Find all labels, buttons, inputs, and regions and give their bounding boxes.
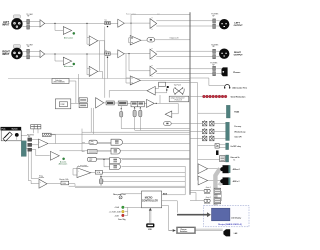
wire micro to choose [162, 206, 173, 231]
connector J5 phones jack [222, 67, 228, 76]
wire ch2 sidechain branch [126, 54, 130, 83]
wire comp chain verticals [71, 27, 105, 135]
wire rj45 vertical2 [197, 113, 199, 180]
svg-text:Freq.: Freq. [39, 175, 43, 177]
wire ch2 sidechain long line [140, 79, 190, 81]
box feedback ref [159, 82, 166, 86]
LCD display blue [212, 208, 230, 221]
svg-text:+: + [40, 182, 41, 184]
filter FL12 [28, 143, 32, 146]
svg-text:CONTROLLER: CONTROLLER [142, 200, 158, 202]
wire relay rows to bus [190, 124, 226, 139]
arrow usb to micro [150, 210, 151, 223]
wire ch2 outputs to XLR [156, 51, 220, 56]
wire long y181.6 [103, 180, 185, 182]
filter FL6 [27, 55, 30, 59]
junction block black [167, 86, 169, 88]
connector J6 AES out black [220, 165, 230, 173]
power module external 5v box [220, 156, 225, 162]
svg-text:+: + [78, 171, 79, 173]
SECTIONS ADDED BELOW [8, 12, 226, 230]
switch S1 on-off box [215, 144, 219, 149]
wire pot below vca [100, 173, 102, 187]
svg-text:hold: hold [89, 160, 92, 162]
node ch1 131 [130, 23, 131, 24]
connector J8 LAN [223, 229, 230, 236]
filter FL13 [28, 148, 32, 151]
svg-text:+: + [90, 38, 91, 40]
op-amp A9 ch2 sidechain pick [89, 66, 98, 76]
node ch1 branch [54, 23, 55, 24]
block attack-release timing [131, 101, 144, 106]
wire ch1 branch down to pm triangle [129, 23, 131, 43]
sidechain link box [52, 79, 69, 84]
filter FL10 [213, 72, 216, 76]
svg-text:Gain Reduction: Gain Reduction [231, 96, 247, 99]
bus main vertical [189, 12, 191, 195]
block RMS [106, 101, 114, 105]
knob black [15, 133, 19, 137]
node ch2 129 [128, 53, 129, 54]
svg-text:Attenuation: Attenuation [59, 162, 68, 165]
node feedback [166, 89, 167, 90]
svg-text:Sidechain: Sidechain [55, 80, 62, 82]
connector GPI teal block [226, 122, 230, 140]
svg-text:On/OFF relay: On/OFF relay [230, 146, 241, 148]
wire long y172.6 [103, 172, 186, 174]
node vca out [100, 176, 102, 178]
node ch1 x87 [86, 23, 87, 24]
comparator row B box [88, 150, 97, 154]
comparator row A dshape [111, 139, 122, 145]
block choose switches [177, 227, 196, 234]
op-amp A1 ch1 input [40, 20, 45, 27]
svg-text:In: In [234, 159, 236, 161]
op-amp A7 ch2 input [40, 50, 45, 57]
svg-text:Attenuator Test: Attenuator Test [232, 87, 247, 90]
block VCA [95, 170, 102, 174]
node ch2 x87 [86, 53, 87, 54]
svg-text:AESout 1: AESout 1 [233, 168, 241, 171]
pot P3 timing2 [139, 107, 141, 110]
svg-text:Phones: Phones [233, 72, 241, 74]
svg-text:Attenuation: Attenuation [64, 36, 73, 39]
connector RJ45 teal block [226, 105, 230, 118]
wire comp up to feedback [159, 95, 161, 103]
op-amp A15 aes driver 2 [198, 176, 208, 185]
wire long y166.3 [122, 165, 186, 167]
wire gain boxes link [214, 191, 222, 201]
arrow to lcd [177, 212, 211, 217]
resistor R1 hatched [42, 133, 51, 136]
relay K5 gain gpi contacts [203, 135, 215, 141]
wire sidechain box stub [69, 80, 76, 82]
filter FL7 [213, 49, 216, 53]
op-amp A14 aes driver 1 [198, 164, 208, 174]
node ch2 branch [54, 53, 55, 54]
LED D14 green acoustic [63, 158, 65, 160]
wire gain transformers in [185, 186, 203, 200]
op-amp A22 freq doubler [39, 179, 47, 188]
wire left panel to opamp [21, 136, 50, 156]
pot P4 vca [99, 179, 102, 184]
node ch1 relay dot [107, 26, 108, 27]
svg-text:External 5v: External 5v [231, 156, 240, 159]
svg-text:OUTPUT: OUTPUT [234, 25, 244, 27]
svg-text:Recipe [9AB/9-3.MCK.4]: Recipe [9AB/9-3.MCK.4] [218, 223, 242, 226]
display enclosure dashed box [204, 205, 249, 226]
comparator row C box [88, 157, 97, 161]
filter FL9 [213, 66, 216, 70]
op-amp A17 cv amp [147, 99, 155, 107]
wire choose to lan double [195, 229, 222, 231]
wire ch1 tri#1 out [98, 41, 105, 54]
svg-text:NF: NF [212, 46, 214, 48]
transformer T2 gain 2 [204, 198, 221, 204]
XLR connector J4 right output [219, 49, 229, 59]
fuse F1 black [216, 150, 219, 155]
wire vca link [91, 171, 103, 173]
micro controller U1 [142, 191, 162, 208]
op-amp A20 sensor amp [38, 139, 48, 148]
wire phones outputs [156, 69, 222, 74]
op-amp A13 ch2 sidechain diff [130, 76, 140, 85]
wire dac tri to aes [208, 169, 222, 181]
svg-text:Gain GPI: Gain GPI [234, 137, 242, 139]
wire comp chain links [104, 103, 179, 114]
wire ch2 phones branch [129, 54, 150, 71]
op-amp A10 ch2 line amp [118, 50, 125, 58]
connector on-off relay teal [226, 143, 229, 150]
wire ch1 main [45, 22, 105, 24]
LED D12 yellow level [122, 210, 125, 213]
wire band 4line [48, 129, 190, 135]
svg-text:Bypass relay: Bypass relay [126, 13, 136, 16]
XLR connector J1 left input [11, 15, 22, 30]
op-amp A12 phones driver [150, 66, 157, 76]
svg-text:Byp: Byp [104, 50, 107, 52]
wire ch1 amp2 out [124, 22, 150, 24]
node ch2 relay dot [107, 57, 108, 58]
comparator row C dshape [110, 158, 121, 164]
comp-lim inner box [59, 102, 67, 107]
filter FL5 [27, 49, 30, 53]
comp-lim selector outer box [55, 99, 70, 109]
LED bar gain reduction D3-D10 [203, 95, 227, 98]
relay K2 bypass ch2 [105, 52, 110, 55]
front panel box with sensor [1, 130, 21, 140]
wire external5v link [198, 159, 220, 161]
wire ch1 atten branch [55, 23, 63, 30]
mode box 2 [79, 103, 87, 107]
wire onoff links [198, 145, 226, 148]
wire jumper drops [34, 129, 56, 144]
svg-text:Over/ Sig: Over/ Sig [118, 219, 125, 221]
filter FL1 [27, 19, 30, 23]
relay K4 window-loop contacts [203, 128, 215, 134]
svg-text:+24dB: +24dB [114, 207, 120, 209]
svg-text:COMP: COMP [60, 104, 64, 106]
connector external 5v teal [226, 155, 229, 162]
wire gain-reduction leds [190, 96, 203, 98]
wire dac triangles in [197, 166, 199, 183]
wire long y176.8 [101, 176, 185, 178]
svg-text:INPUT: INPUT [2, 23, 10, 26]
svg-text:NF: NF [212, 64, 214, 66]
wire ch2 tri#1 out [98, 71, 103, 78]
wire left filters verticals [28, 152, 39, 184]
svg-text:Gain 2: Gain 2 [206, 197, 211, 199]
label photo-pots switch black bar [1, 127, 22, 130]
connector teal front panel [21, 141, 26, 157]
wire micro leds [125, 207, 141, 215]
op-amp A19 small feedback left lower [165, 111, 172, 117]
wire rear pot to micro [121, 194, 142, 196]
filter FL8 [213, 55, 216, 59]
svg-text:Pre-amp: Pre-amp [234, 126, 241, 128]
node comp out [156, 103, 157, 104]
wire feedback right bits [155, 86, 167, 93]
wire ch1 outputs to XLR [156, 21, 220, 26]
svg-text:doubler: doubler [39, 177, 45, 179]
op-amp A16 detector [96, 98, 104, 108]
meter bridge X assembly [173, 87, 184, 94]
wire d-rows links [82, 142, 111, 166]
wire long y142.9 [49, 143, 191, 145]
USB connector J9 [146, 223, 154, 227]
XLR connector J2 right input [11, 45, 22, 60]
svg-text:+: + [39, 141, 40, 143]
label 4-layer pcb box [169, 96, 189, 102]
svg-text:MICRO: MICRO [145, 197, 153, 199]
LED D2 green attenuation ch2 [73, 63, 75, 65]
block attack [118, 101, 127, 105]
op-amp A23 offset [77, 168, 91, 178]
op-amp A2 ch1 attenuation cell [63, 27, 71, 35]
transformer T1 gain 1 [204, 188, 221, 194]
svg-text:NF: NF [27, 16, 29, 18]
wire ch1 XLR to amp [22, 22, 40, 27]
svg-text:Gain 1: Gain 1 [206, 187, 211, 189]
op-amp A6 ch1 sidechain diff [130, 36, 141, 45]
wire freq doubler out [47, 184, 75, 187]
wire ch2 XLR to amp [22, 51, 40, 56]
wire ch1 top stub to bus [131, 15, 190, 24]
icon attenuator test headphone [225, 85, 230, 89]
filter FL4 [213, 24, 216, 28]
wire ch1 sidechain vertical [87, 23, 89, 44]
svg-text:LINK/COMBINED: LINK/COMBINED [53, 82, 66, 84]
wire ch2 main [45, 53, 105, 55]
svg-text:Rear panel Text: Rear panel Text [113, 193, 126, 196]
XLR connector J3 left output [219, 19, 229, 29]
arrow into choose box [169, 230, 173, 232]
op-amp A11 ch2 output driver [150, 49, 157, 59]
wire ch1 DO-to-amp [110, 22, 118, 24]
op-amp A8 ch2 attenuation cell [63, 57, 71, 65]
svg-text:Output_Left: Output_Left [170, 36, 179, 39]
wire ch2 atten branch [55, 54, 63, 61]
svg-text:+: + [90, 69, 91, 71]
filter FL2 [27, 25, 30, 29]
svg-text:NF: NF [212, 16, 214, 18]
wire section line y78.5 [8, 78, 190, 80]
wire ch2 sidechain vertical [87, 54, 89, 75]
mode box 1 [79, 98, 87, 102]
filter FL3 [213, 19, 216, 23]
relay K1 bypass ch1 [105, 21, 110, 24]
filter FL11 [28, 138, 32, 141]
svg-text:LCD Display: LCD Display [231, 218, 241, 220]
wire ch2 do dot drop [107, 58, 109, 79]
op-amp A3 ch1 sidechain pick [89, 36, 98, 46]
wire offset tri in [73, 169, 77, 176]
svg-text:Top Panel: Top Panel [174, 85, 182, 87]
block 100k [61, 181, 69, 185]
pot P2 timing1 [134, 107, 136, 110]
pot P1 attack [120, 106, 122, 111]
jumper header box [31, 125, 41, 129]
inductor L1 ch1 sidechain capsule [147, 38, 155, 42]
LED D1 green attenuation ch1 [73, 32, 75, 34]
svg-text:INPUT: INPUT [2, 53, 10, 56]
connector J7 AES in black [220, 177, 230, 185]
comparator row B dshape [111, 148, 120, 154]
comparator row D dshape [110, 164, 121, 169]
svg-text:OUTPUT: OUTPUT [234, 55, 244, 57]
op-amp A4 ch1 line amp [118, 19, 125, 27]
op-amp A18 feedback left [147, 86, 155, 95]
wire micro right lcd [162, 201, 178, 213]
wire feedback opamp left [109, 91, 147, 98]
wire capsule2 to bus [171, 123, 190, 125]
ribbon cable gray band [213, 167, 222, 209]
svg-text:NF: NF [27, 46, 29, 48]
wire ch2 amp2 out [124, 53, 150, 55]
wire ch1 tri#1 out drop2 [99, 41, 101, 71]
svg-text:Byp: Byp [104, 19, 107, 21]
svg-text:AES In 2: AES In 2 [233, 180, 240, 183]
op-amp A5 ch1 output driver [150, 19, 157, 29]
svg-text:+6.-90dB -10dB: +6.-90dB -10dB [109, 212, 122, 214]
comparator row A box [89, 140, 97, 144]
svg-text:Window/Loop: Window/Loop [234, 131, 245, 133]
wire long y186.2 [69, 186, 186, 187]
wire ch2 DO-to-amp [110, 53, 118, 55]
inductor L2 capsule lower [164, 122, 172, 126]
svg-text:100k: 100k [62, 183, 66, 185]
relay K3 pre-amp contacts [203, 120, 215, 126]
svg-text:Switches: Switches [180, 230, 187, 233]
wire long y150.8 [60, 150, 191, 152]
op-amp A21 second [50, 151, 59, 160]
svg-text:PCB-CCS: PCB-CCS [175, 100, 182, 102]
wire ch1 sidechain to bus [141, 39, 190, 41]
wire long y158.7 [96, 159, 190, 160]
bus crossing atten-test [160, 78, 226, 113]
LED D13 red level [122, 214, 125, 217]
svg-text:Attenuation: Attenuation [64, 65, 73, 68]
LED D11 green level [122, 206, 125, 209]
pot P5 rear panel [119, 196, 122, 199]
bus2 vertical to micro [162, 166, 186, 195]
